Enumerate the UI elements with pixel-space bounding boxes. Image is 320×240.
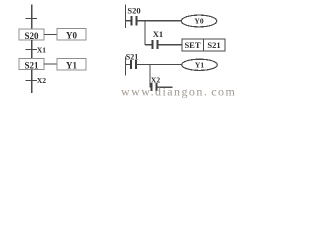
- wire: rung 2 right: [158, 44, 183, 46]
- wire: rung 4 right: [157, 86, 173, 88]
- transition tick X1: [26, 49, 38, 51]
- contact S21: [131, 60, 136, 69]
- wire: branch drop to rung 2: [144, 21, 146, 45]
- svg-text:Y1: Y1: [195, 60, 204, 69]
- transition tick T0: [26, 18, 38, 20]
- instruction box SET S21: [182, 39, 225, 51]
- step box S21: [19, 59, 44, 71]
- svg-text:Y0: Y0: [194, 17, 203, 26]
- wire: ladder left rail segment 2: [125, 57, 127, 76]
- svg-text:S21: S21: [24, 60, 39, 70]
- transition tick X2: [26, 80, 38, 82]
- wire: SFC vertical trunk bottom segment: [31, 70, 33, 94]
- svg-text:X2: X2: [37, 76, 46, 85]
- wire: branch drop to rung 4: [149, 64, 151, 87]
- contact S20: [132, 16, 137, 26]
- svg-text:SET: SET: [184, 40, 200, 50]
- wire: rung 3 left: [126, 63, 132, 65]
- wire: S21 to Y1 action box: [44, 63, 57, 65]
- wire: rung 1 right: [137, 20, 182, 22]
- svg-text:Y1: Y1: [66, 61, 77, 71]
- action box Y1: [57, 59, 86, 71]
- wire: rung 1 left: [126, 20, 132, 22]
- svg-text:S21: S21: [207, 40, 220, 50]
- svg-text:S20: S20: [127, 6, 140, 16]
- svg-text:www.diangon.com: www.diangon.com: [121, 85, 236, 99]
- contact X2: [152, 83, 157, 91]
- contact X1: [153, 40, 158, 49]
- svg-text:S20: S20: [24, 31, 39, 41]
- svg-text:X1: X1: [153, 29, 163, 39]
- coil Y0: [181, 15, 217, 27]
- svg-text:S21: S21: [126, 52, 138, 61]
- wire: rung 3 right: [136, 63, 182, 65]
- coil Y1: [182, 59, 218, 70]
- wire: rung 2 left: [145, 44, 153, 46]
- svg-text:X1: X1: [37, 46, 46, 55]
- wire: SFC vertical trunk top segment: [31, 5, 33, 29]
- wire: ladder left rail segment 1: [125, 5, 127, 28]
- svg-text:Y0: Y0: [66, 31, 77, 41]
- step box S20: [19, 29, 44, 41]
- wire: SFC vertical trunk middle segment: [31, 40, 33, 59]
- wire: S20 to Y0 action box: [44, 34, 57, 36]
- action box Y0: [57, 29, 86, 41]
